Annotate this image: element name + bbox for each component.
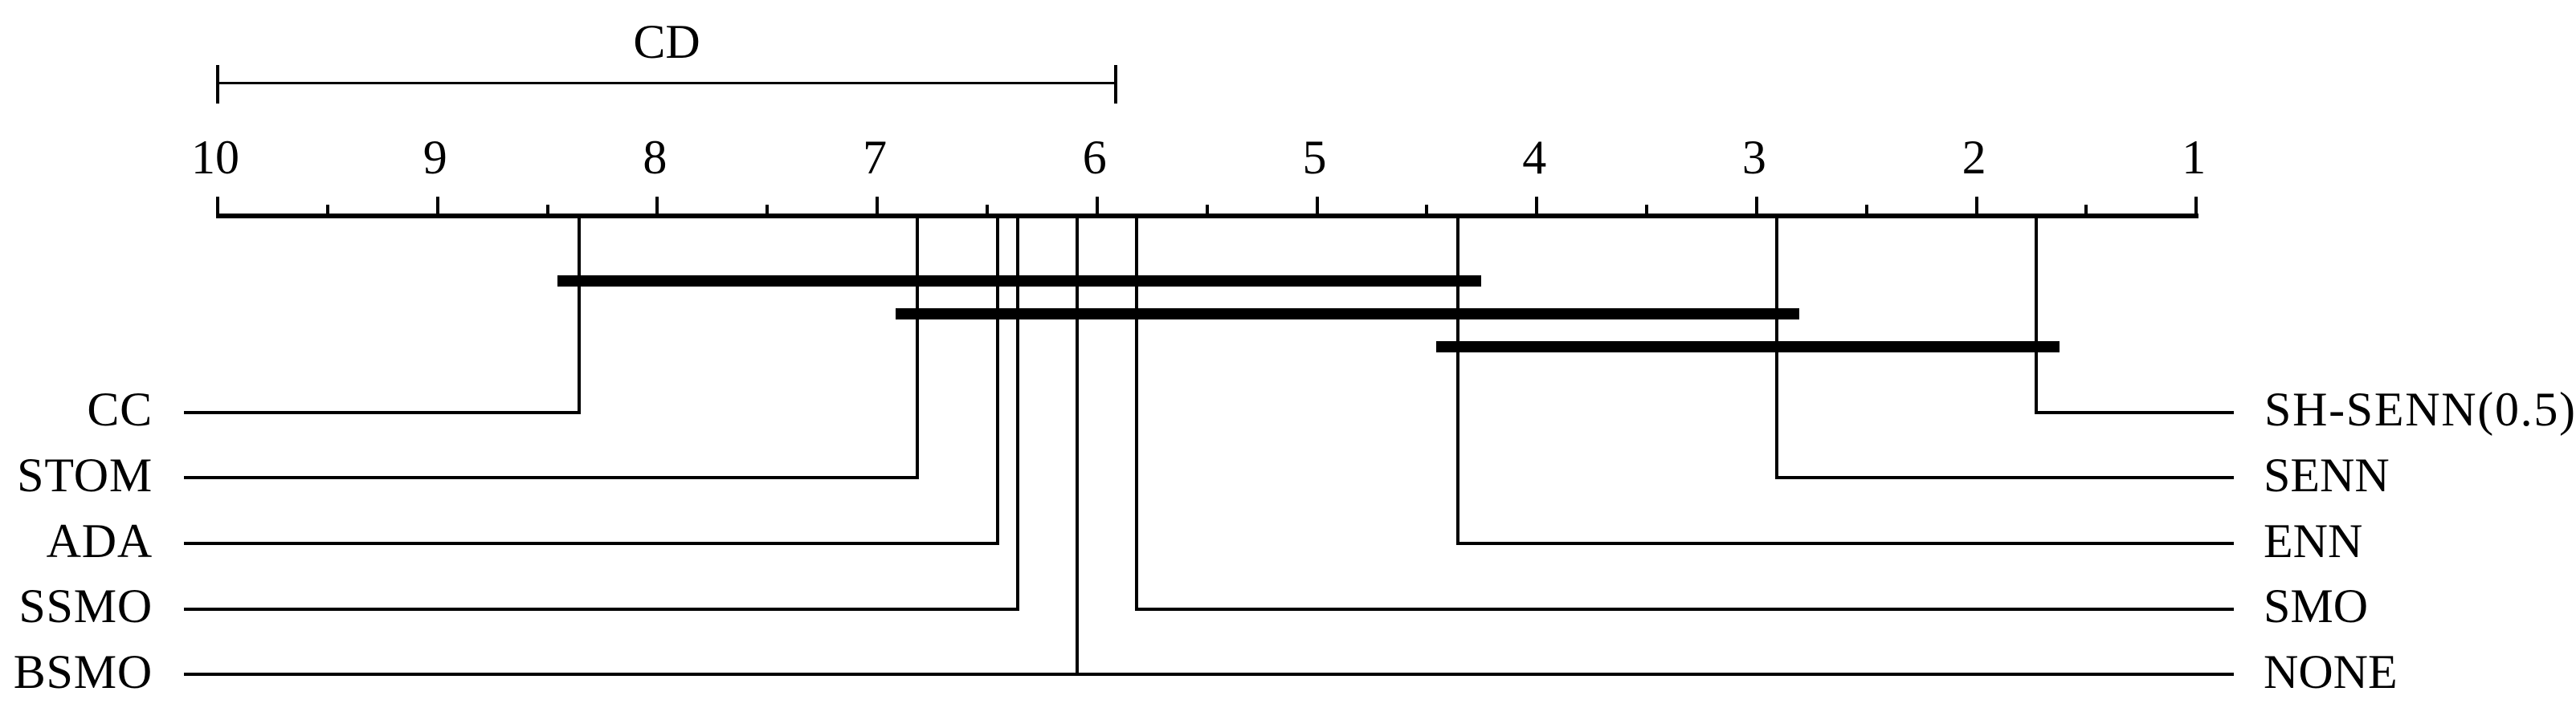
CC connector xyxy=(184,411,581,414)
label BSMO xyxy=(0,648,153,696)
major tick 7 xyxy=(876,197,879,218)
STOM connector xyxy=(184,476,919,479)
major tick 5 xyxy=(1316,197,1319,218)
major tick 3 xyxy=(1755,197,1758,218)
minor tick 4.5 xyxy=(1425,205,1428,218)
axis number 4 xyxy=(1486,133,1582,181)
clique bar STOM-SENN xyxy=(896,308,1799,319)
SSMO drop line xyxy=(1016,216,1019,611)
axis number 5 xyxy=(1267,133,1363,181)
clique bar ENN-SH-SENN xyxy=(1436,341,2060,352)
BSMO-NONE drop line xyxy=(1076,216,1079,676)
minor tick 1.5 xyxy=(2084,205,2088,218)
label SMO xyxy=(2264,582,2368,630)
SENN drop line xyxy=(1775,216,1778,479)
minor tick 8.5 xyxy=(546,205,549,218)
major tick 6 xyxy=(1096,197,1099,218)
label ADA xyxy=(0,517,153,565)
clique bar CC-ENN xyxy=(557,275,1481,287)
SMO drop line xyxy=(1135,216,1138,611)
minor tick 2.5 xyxy=(1865,205,1868,218)
ENN connector xyxy=(1456,542,2234,545)
axis line xyxy=(216,214,2198,218)
ADA drop line xyxy=(996,216,999,545)
axis number 6 xyxy=(1047,133,1143,181)
minor tick 6.5 xyxy=(986,205,989,218)
SENN connector xyxy=(1775,476,2234,479)
CD right end tick xyxy=(1114,65,1117,104)
major tick 2 xyxy=(1975,197,1978,218)
label CC xyxy=(0,385,153,433)
axis number 2 xyxy=(1926,133,2023,181)
SSMO connector xyxy=(184,608,1019,611)
axis number 9 xyxy=(387,133,484,181)
axis number 10 xyxy=(167,133,263,181)
minor tick 9.5 xyxy=(326,205,329,218)
minor tick 3.5 xyxy=(1645,205,1648,218)
label ENN xyxy=(2264,517,2362,565)
CD left end tick xyxy=(216,65,219,104)
axis number 7 xyxy=(827,133,923,181)
minor tick 7.5 xyxy=(765,205,769,218)
ADA connector xyxy=(184,542,999,545)
label STOM xyxy=(0,451,153,499)
axis number 1 xyxy=(2145,133,2242,181)
major tick 1 xyxy=(2194,197,2198,218)
SMO connector xyxy=(1135,608,2234,611)
CD interval line xyxy=(218,82,1116,84)
label NONE xyxy=(2264,648,2398,696)
label SENN xyxy=(2264,451,2390,499)
CD label xyxy=(618,18,715,66)
major tick 10 xyxy=(216,197,219,218)
major tick 8 xyxy=(655,197,659,218)
BSMO-NONE connector xyxy=(184,673,2234,676)
axis number 8 xyxy=(606,133,703,181)
CC drop line xyxy=(578,216,581,414)
STOM drop line xyxy=(916,216,919,479)
major tick 9 xyxy=(436,197,439,218)
SH-SENN drop line xyxy=(2035,216,2038,414)
minor tick 5.5 xyxy=(1206,205,1209,218)
SH-SENN connector xyxy=(2035,411,2234,414)
label SH-SENN(0.5) xyxy=(2264,385,2576,433)
label SSMO xyxy=(0,582,153,630)
major tick 4 xyxy=(1535,197,1538,218)
ENN drop line xyxy=(1456,216,1459,545)
axis number 3 xyxy=(1706,133,1802,181)
